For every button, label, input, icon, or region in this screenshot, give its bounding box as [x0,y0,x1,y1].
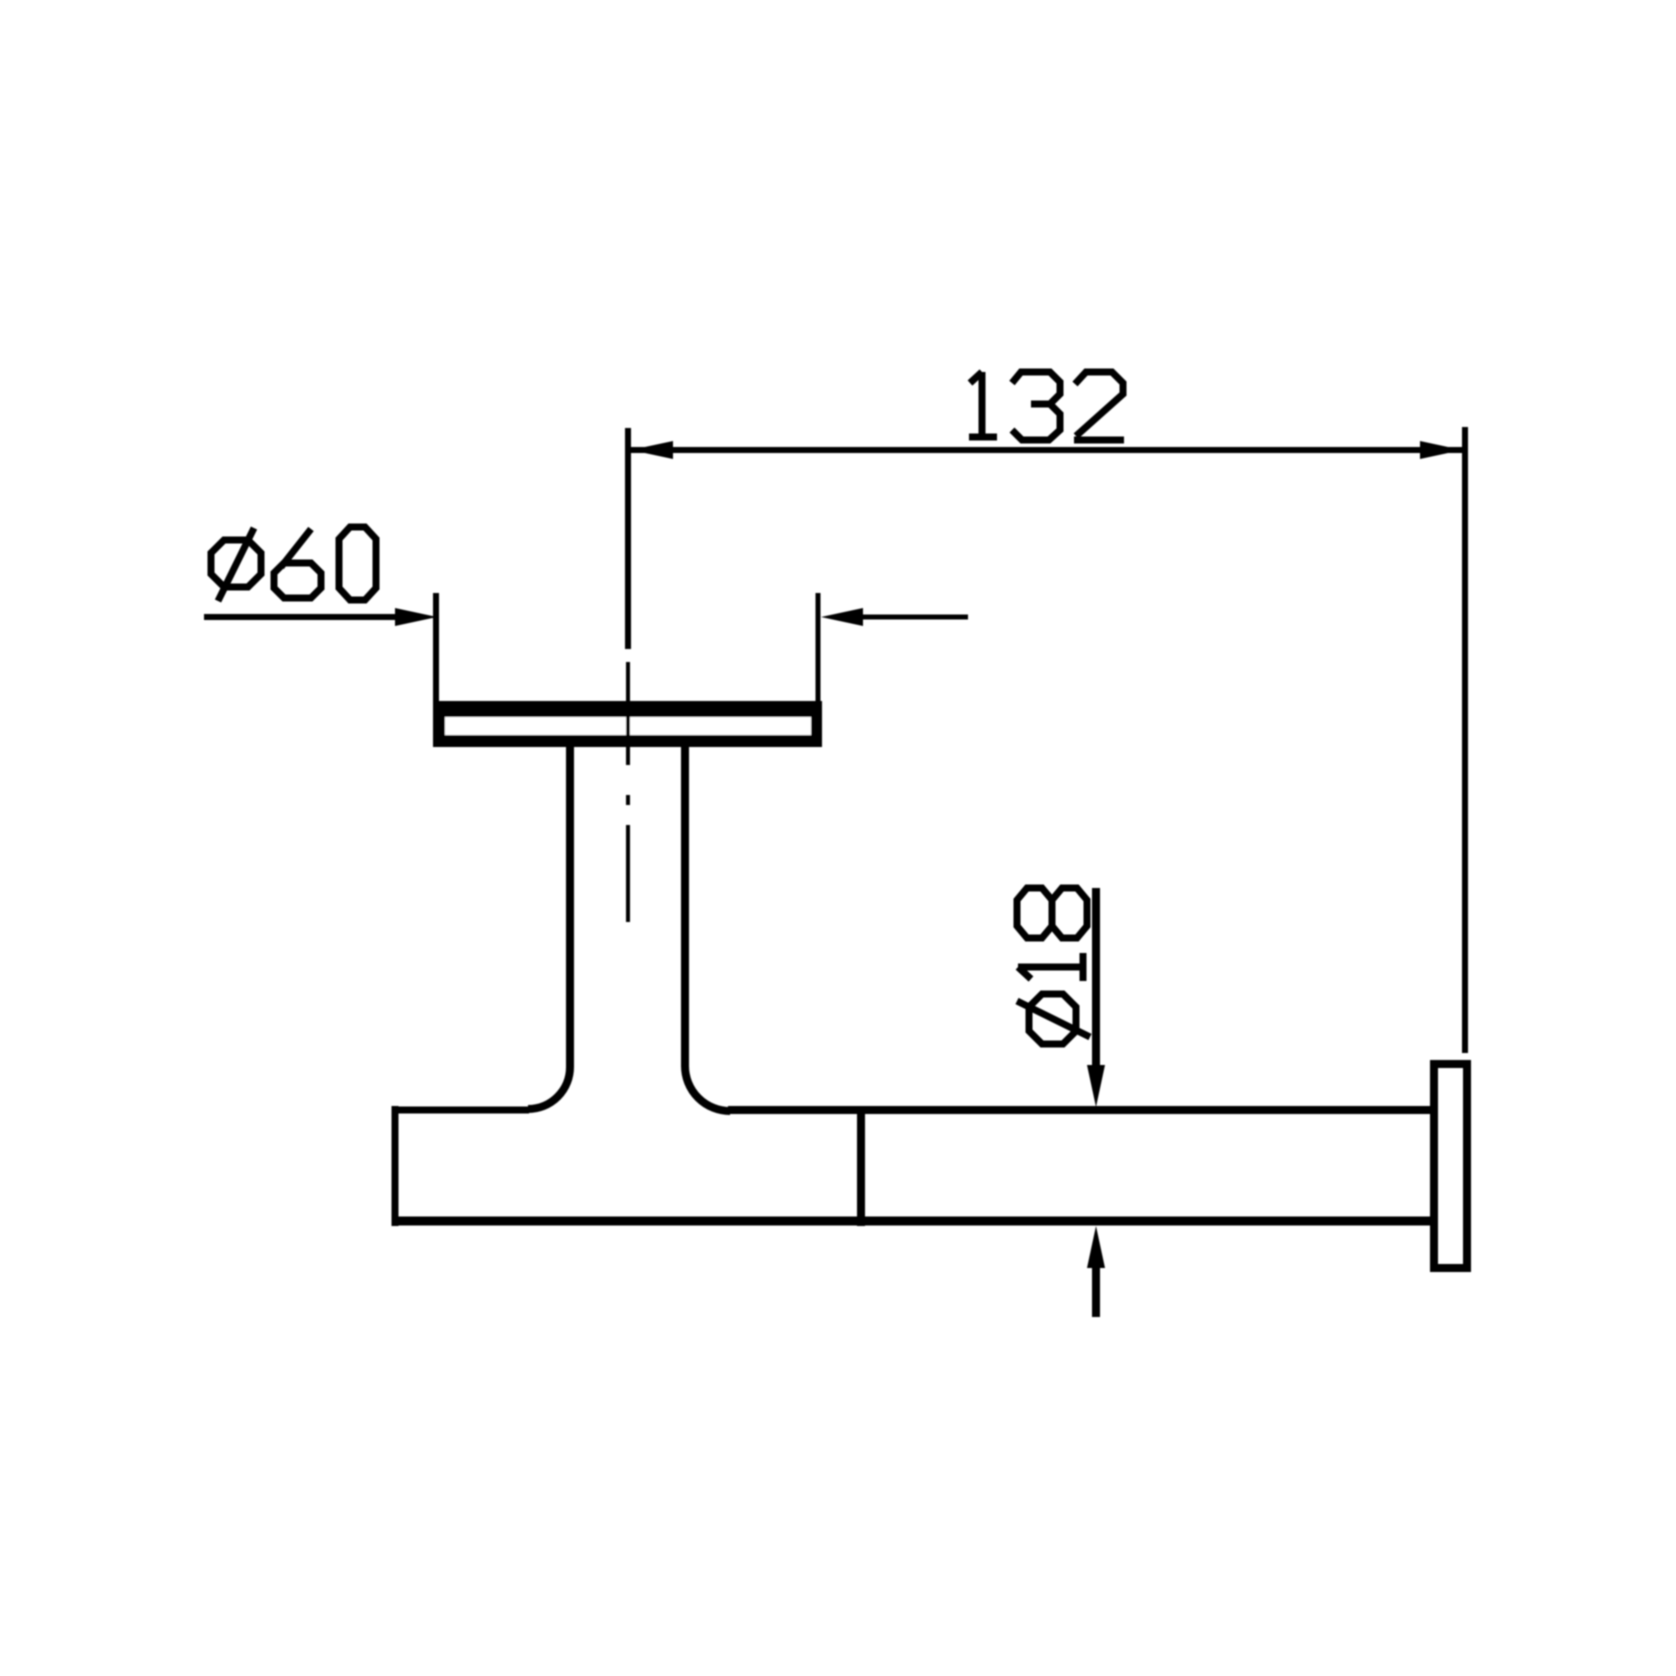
bracket stem left edge [566,747,574,1067]
leader tail Ø60 right [860,615,968,620]
holder bar top edge right segment [728,1106,1430,1114]
holder bar left end edge [392,1106,399,1226]
extension line 132 left [625,428,631,649]
wall mount flange (right end of rail) [1434,1064,1467,1268]
arrowhead Ø18 up [1087,1226,1105,1268]
diameter label Ø18 (rotated) [1017,888,1090,1044]
dimension line Ø18 upper [1092,888,1100,1068]
dimension line Ø18 lower tail [1092,1266,1100,1317]
arrowhead Ø18 down [1087,1065,1105,1107]
arrowhead 132 left [631,441,673,459]
joint line between bracket foot and rail [857,1107,865,1226]
wall plate flange inner face (white slot) [445,717,811,735]
holder bar bottom edge [392,1217,1430,1226]
center line of stem (dash-dot) [626,662,630,922]
arrowhead Ø60 right [821,608,863,626]
extension line Ø60 right [816,593,821,701]
arrowhead 132 right [1420,441,1462,459]
bracket stem right edge [681,747,689,1067]
extension line 132 right [1462,427,1468,1053]
arrowhead Ø60 left [395,608,437,626]
extension line Ø60 left [433,593,439,701]
stem fillet right [685,1066,730,1111]
holder bar top edge left segment [392,1107,529,1114]
diameter label Ø60 [211,527,376,601]
leader line Ø60 left [204,614,400,620]
dimension text 132 [969,372,1124,440]
dimension line 132 [631,447,1462,453]
wall plate flange (top, Ø60 plate) outer outline [433,701,822,747]
stem fillet left [528,1067,570,1109]
